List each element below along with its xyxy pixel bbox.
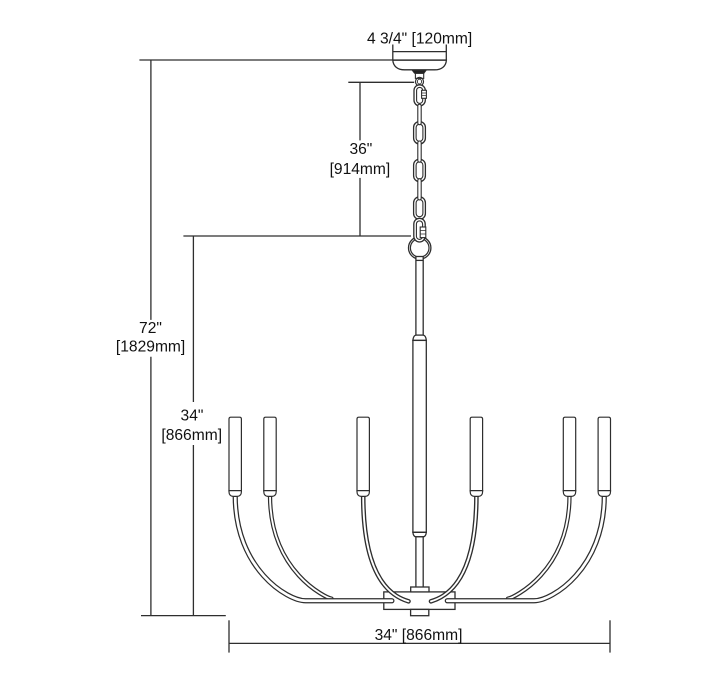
hook loop — [416, 77, 424, 86]
72in dimension line lower segment — [150, 357, 152, 616]
chain wide link 1 — [414, 122, 426, 145]
arm to candle 4 (inner right) black — [431, 496, 476, 602]
arm to candle 6 white core — [447, 496, 604, 601]
ring level extension line — [183, 235, 411, 237]
candle 6 cup — [598, 491, 610, 497]
arm to candle 3 white core — [363, 496, 408, 602]
quick link 2 — [414, 218, 425, 242]
arm to candle 4 white core — [431, 496, 476, 602]
candle 6 body — [598, 417, 610, 490]
hub bottom block — [411, 609, 429, 615]
chain narrow link 1 — [418, 104, 421, 125]
arm to candle 1 (outer left) black — [235, 496, 392, 601]
lower stem rod — [416, 537, 423, 589]
arm to candle 2 (middle left) black — [270, 496, 332, 599]
svg-text:36": 36" — [349, 141, 372, 158]
candle 2 body — [264, 417, 276, 490]
candle 5 cup — [563, 491, 575, 497]
canopy — [393, 60, 447, 70]
candle 4 body — [470, 417, 482, 490]
arm to candle 2 white core — [270, 496, 332, 599]
upper stem rod — [416, 257, 423, 336]
svg-text:[866mm]: [866mm] — [161, 427, 222, 444]
arm to candle 6 (outer right) black — [447, 496, 604, 601]
candle 3 body — [357, 417, 369, 490]
72in dimension line upper segment — [150, 60, 152, 320]
36in dimension line upper segment — [359, 82, 361, 140]
arm to candle 5 white core — [508, 496, 570, 599]
34in dimension line lower segment — [192, 445, 194, 616]
quick link 1 — [414, 85, 425, 106]
top dimension line — [393, 51, 447, 53]
ceiling level extension line — [139, 59, 446, 61]
34in dimension line upper segment — [192, 236, 194, 402]
hub top collar — [411, 587, 429, 592]
svg-text:4 3/4" [120mm]: 4 3/4" [120mm] — [367, 30, 472, 47]
svg-text:34": 34" — [181, 407, 204, 424]
svg-text:72": 72" — [139, 320, 162, 337]
rod joint line — [416, 259, 423, 261]
svg-text:[914mm]: [914mm] — [330, 161, 391, 178]
chain narrow link 2 — [418, 141, 421, 162]
canopy stem (dark) — [412, 70, 426, 73]
top dimension right tick — [445, 45, 447, 60]
candle 1 cup — [229, 491, 241, 497]
chain wide link 2 — [414, 159, 426, 182]
chain wide link 3 — [414, 197, 426, 220]
quick link 1 sleeve — [422, 90, 427, 98]
center column — [413, 340, 426, 532]
quick link 2 sleeve — [420, 227, 426, 238]
candle 3 cup — [357, 491, 369, 497]
hanging ring — [409, 237, 431, 259]
arm to candle 1 white core — [235, 496, 392, 601]
upper column shoulder — [413, 335, 426, 340]
top dimension left tick — [392, 45, 394, 60]
stem cylinder — [415, 73, 423, 78]
hub body — [384, 592, 455, 610]
candle 4 cup — [470, 491, 482, 497]
chain narrow link 3 — [418, 179, 421, 200]
arm to candle 5 (middle right) black — [508, 496, 570, 599]
svg-text:[1829mm]: [1829mm] — [116, 339, 185, 356]
36in extension line — [348, 81, 414, 83]
svg-text:34" [866mm]: 34" [866mm] — [375, 627, 463, 644]
candle 5 body — [563, 417, 575, 490]
arm to candle 3 (inner left) black — [363, 496, 408, 602]
bottom dimension right tick — [609, 620, 611, 652]
bottom dimension left tick — [228, 620, 230, 652]
bottom dimension line — [229, 642, 610, 644]
candle 2 cup — [264, 491, 276, 497]
lower column shoulder — [413, 532, 426, 537]
candle 1 body — [229, 417, 241, 490]
36in dimension line lower segment — [359, 178, 361, 236]
fixture bottom extension line — [141, 615, 226, 617]
